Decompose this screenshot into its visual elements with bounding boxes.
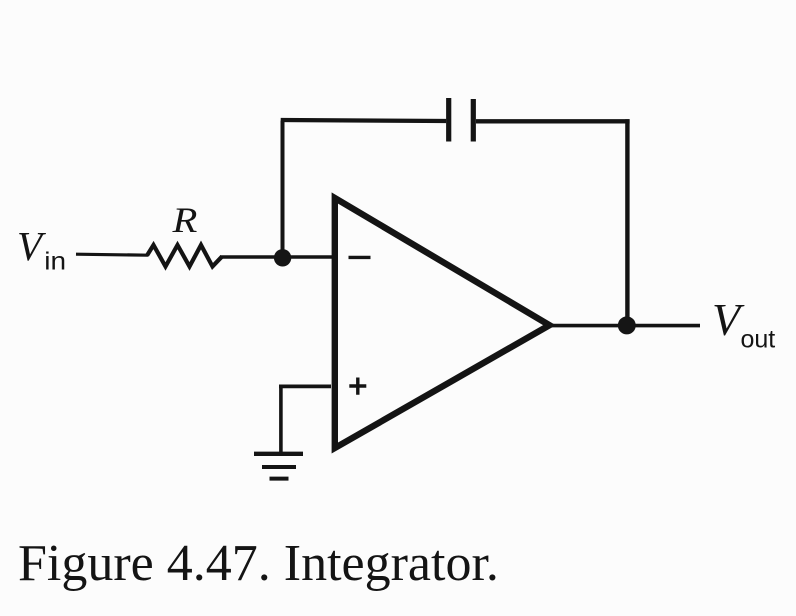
svg-text:R: R: [171, 201, 197, 240]
svg-text:in: in: [44, 247, 66, 275]
svg-text:Figure 4.47. Integrator.: Figure 4.47. Integrator.: [18, 535, 499, 592]
svg-text:out: out: [741, 326, 776, 354]
svg-text:V: V: [17, 223, 46, 269]
